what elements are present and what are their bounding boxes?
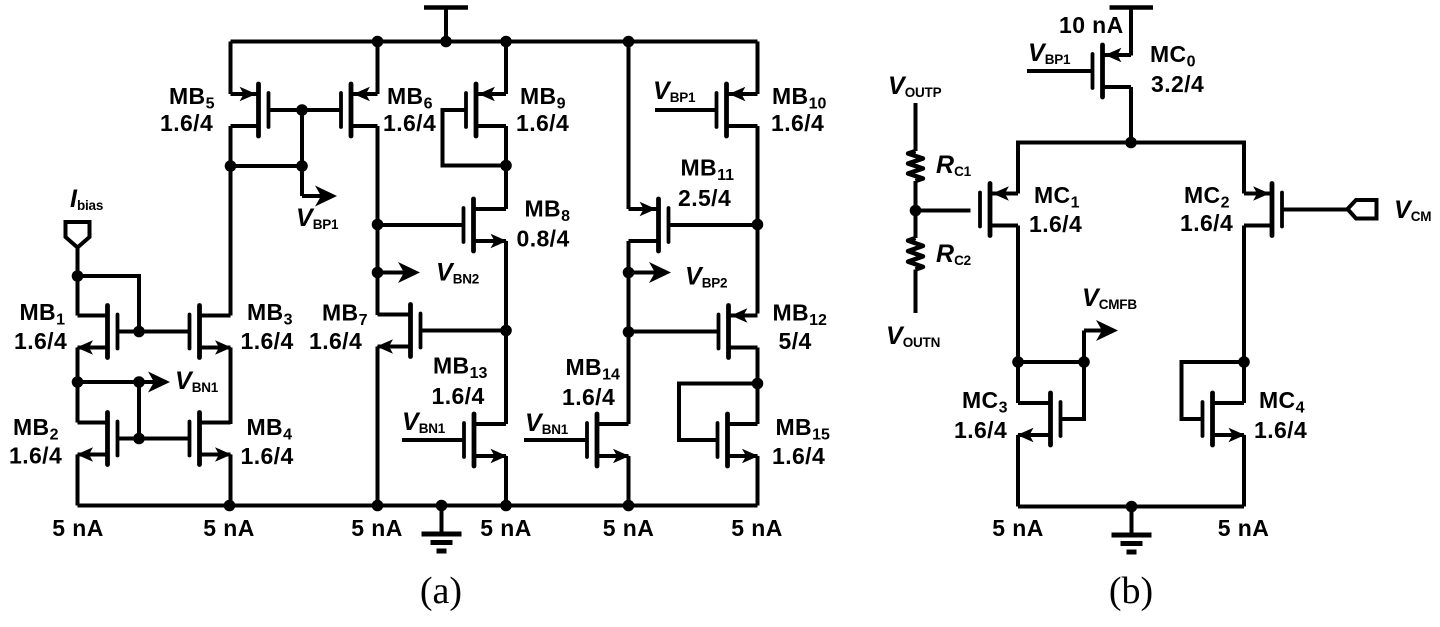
transistor MB5 — [231, 84, 303, 136]
wire MB4 source down to rail — [229, 455, 233, 506]
wire MC3 source down to rail — [1016, 435, 1020, 507]
svg-text:1.6/4: 1.6/4 — [954, 417, 1007, 443]
svg-text:1.6/4: 1.6/4 — [241, 443, 294, 469]
svg-text:1.6/4: 1.6/4 — [160, 110, 213, 136]
wire VBN1 tap arrow — [139, 380, 156, 384]
svg-text:2.5/4: 2.5/4 — [678, 185, 731, 211]
transistor MB7 — [377, 305, 507, 357]
svg-text:1.6/4: 1.6/4 — [771, 110, 824, 136]
wire bottom ground rail (a) — [78, 504, 758, 508]
wire MB14 source down to rail — [627, 456, 631, 506]
resistor RC2 — [908, 238, 923, 270]
wire MB8 source riser to MB7 gate node and MB13 drain — [504, 241, 508, 424]
resistor RC1 — [908, 151, 923, 181]
wire divider node to MC1 gate — [916, 209, 971, 213]
node MB7 gate / MB8 source junction — [500, 325, 512, 337]
node rail MB7 — [372, 500, 384, 512]
wire MC1 drain riser — [1016, 226, 1020, 363]
transistor MB9 — [443, 84, 507, 166]
wire VBN1 node down to MB2 MB4 gate line — [137, 382, 141, 439]
wire VCMFB horizontal — [1018, 360, 1084, 364]
transistor MC0 — [1027, 45, 1131, 97]
svg-text:5/4: 5/4 — [779, 328, 812, 354]
wire MB12 drain riser — [756, 348, 760, 425]
transistor MB10 — [655, 84, 758, 136]
node VBN1 / gate riser junction — [133, 376, 145, 388]
wire MB7 source down to rail — [376, 347, 380, 506]
node VCMFB junction — [1078, 356, 1090, 368]
transistor MB12 — [629, 306, 758, 358]
svg-text:1.6/4: 1.6/4 — [1254, 417, 1307, 443]
wire MB10 drain riser to MB11 gate node and MB12 source — [756, 126, 760, 314]
wire MB2 source down to rail — [76, 455, 80, 506]
wire MB1 drain riser — [76, 276, 80, 316]
wire RC2 to VOUTN — [914, 270, 918, 314]
VDD supply bar (a) — [424, 8, 468, 42]
svg-text:1.6/4: 1.6/4 — [241, 328, 294, 354]
node MB2 MB4 gate junction — [133, 433, 145, 445]
transistor MB3 — [190, 306, 232, 358]
wire VBP1 tap with arrow — [302, 166, 337, 207]
wire MC4 drain riser — [1242, 362, 1246, 403]
wire MB11 source riser — [627, 42, 631, 210]
node MB5 gate-drain tie junction — [296, 160, 308, 172]
svg-text:5 nA: 5 nA — [480, 515, 531, 541]
transistor MB6 — [302, 84, 378, 136]
node MC1 drain / MC3 junction — [1012, 356, 1024, 368]
wire VBN2 tap arrow — [378, 271, 407, 275]
node top rail / VDD stem junction — [440, 36, 452, 48]
node VBP2 junction — [623, 267, 635, 279]
wire MC2 drain riser — [1242, 226, 1246, 363]
svg-text:1.6/4: 1.6/4 — [562, 384, 615, 410]
transistor MC2 — [1244, 184, 1348, 236]
wire VBP2 tap arrow — [629, 271, 658, 275]
transistor MC4 — [1182, 362, 1246, 445]
wire MB6 drain riser to MB8 gate and VBN2 node — [376, 126, 380, 315]
ground symbol (b) — [1112, 507, 1152, 553]
node resistor divider junction — [910, 205, 922, 217]
transistor MB15 — [679, 384, 759, 467]
transistor MC1 — [980, 184, 1018, 236]
svg-text:1.6/4: 1.6/4 — [1029, 211, 1082, 237]
wire MB9 source riser — [504, 42, 508, 95]
wire source rail (b) — [1018, 143, 1244, 194]
wire RC1 to node — [914, 181, 918, 211]
svg-text:1.6/4: 1.6/4 — [383, 110, 436, 136]
wire node to RC2 — [914, 211, 918, 239]
terminal VCM — [1348, 200, 1377, 219]
transistor MB2 — [77, 413, 189, 465]
svg-text:5 nA: 5 nA — [603, 515, 654, 541]
svg-text:1.6/4: 1.6/4 — [309, 328, 362, 354]
node MB11 gate / MB10 drain junction — [752, 219, 764, 231]
node rail MB4 — [224, 500, 236, 512]
node rail ground stem (b) — [1126, 501, 1138, 513]
node top rail / MB6 source junction — [372, 36, 384, 48]
svg-text:1.6/4: 1.6/4 — [516, 110, 569, 136]
svg-text:0.8/4: 0.8/4 — [517, 226, 570, 252]
transistor MB1 — [77, 306, 189, 358]
svg-text:5 nA: 5 nA — [992, 515, 1043, 541]
wire Ibias node to MB1 MB3 gate line — [78, 276, 140, 332]
node MB12 drain / MB15 gate junction — [752, 378, 764, 390]
wire top VDD rail (a) — [231, 40, 758, 44]
node top rail / MB11 source junction — [623, 36, 635, 48]
node Ibias / MB1 drain junction — [72, 270, 84, 282]
svg-text:1.6/4: 1.6/4 — [432, 383, 485, 409]
svg-text:(b): (b) — [1109, 570, 1153, 612]
wire VBN1 horizontal — [78, 380, 140, 384]
node MB1 MB3 gate junction — [133, 326, 145, 338]
wire MB5 drain node to gate tie — [231, 110, 303, 166]
svg-text:5 nA: 5 nA — [731, 515, 782, 541]
svg-text:1.6/4: 1.6/4 — [772, 443, 825, 469]
wire MB5 source riser — [229, 42, 233, 95]
node rail ground stem — [436, 500, 448, 512]
svg-text:3.2/4: 3.2/4 — [1151, 71, 1204, 97]
wire MB6 source riser — [376, 42, 380, 95]
svg-text:1.6/4: 1.6/4 — [14, 328, 67, 354]
node MC2 drain / MC4 junction — [1238, 356, 1250, 368]
wire MB3 source to MB4 drain — [229, 348, 233, 425]
terminal Ibias — [66, 222, 90, 276]
svg-text:5 nA: 5 nA — [1218, 515, 1269, 541]
node MB5 MB6 gate junction — [296, 104, 308, 116]
wire MC3 drain riser — [1016, 362, 1020, 403]
transistor MB8 — [378, 199, 508, 251]
wire VCMFB tap arrow — [1084, 320, 1118, 362]
svg-text:10 nA: 10 nA — [1059, 12, 1124, 38]
svg-text:5 nA: 5 nA — [351, 515, 402, 541]
wire MB13 source down to rail — [504, 456, 508, 506]
VDD supply bar (b) — [1110, 8, 1154, 56]
node MB9 drain / gate junction — [500, 160, 512, 172]
wire VOUTP lead — [914, 103, 918, 151]
wire MB15 source down to rail — [756, 456, 760, 506]
ground symbol (a) — [422, 506, 462, 552]
node VBN2 junction on MB6 drain line — [372, 267, 384, 279]
transistor MB14 — [524, 414, 630, 466]
wire MB9 drain riser — [504, 126, 508, 209]
wire bottom ground rail (b) — [1018, 505, 1244, 509]
node MB8 gate / MB6 drain junction — [372, 219, 384, 231]
wire MC0 drain riser — [1129, 87, 1133, 143]
svg-text:1.6/4: 1.6/4 — [9, 443, 62, 469]
transistor MC3 — [1017, 362, 1084, 445]
node MB12 gate junction on VBP2 line — [623, 326, 635, 338]
wire MB11 drain riser to VBP2 node, MB12 gate, MB14 drain — [627, 241, 631, 424]
svg-text:(a): (a) — [420, 570, 462, 612]
svg-text:5 nA: 5 nA — [203, 515, 254, 541]
transistor MB11 — [629, 199, 758, 251]
wire MB1 source down to VBN1 node — [76, 348, 80, 383]
node MC0 drain junction — [1125, 137, 1137, 149]
wire MB5 drain node down to MB3 drain — [229, 166, 233, 316]
wire MB5 drain riser — [229, 126, 233, 166]
wire MC4 source down to rail — [1242, 435, 1246, 507]
wire MB2 drain riser — [76, 382, 80, 423]
node VBN1 left junction — [72, 376, 84, 388]
svg-text:1.6/4: 1.6/4 — [1180, 210, 1233, 236]
wire MB10 source riser — [756, 42, 760, 95]
transistor MB4 — [190, 413, 232, 465]
node MB5 drain / MB3 drain junction — [225, 160, 237, 172]
node rail MB13 — [500, 500, 512, 512]
node top rail / MB9 source junction — [500, 36, 512, 48]
transistor MB13 — [402, 414, 507, 466]
svg-text:5 nA: 5 nA — [52, 515, 103, 541]
node rail MB14 — [623, 500, 635, 512]
